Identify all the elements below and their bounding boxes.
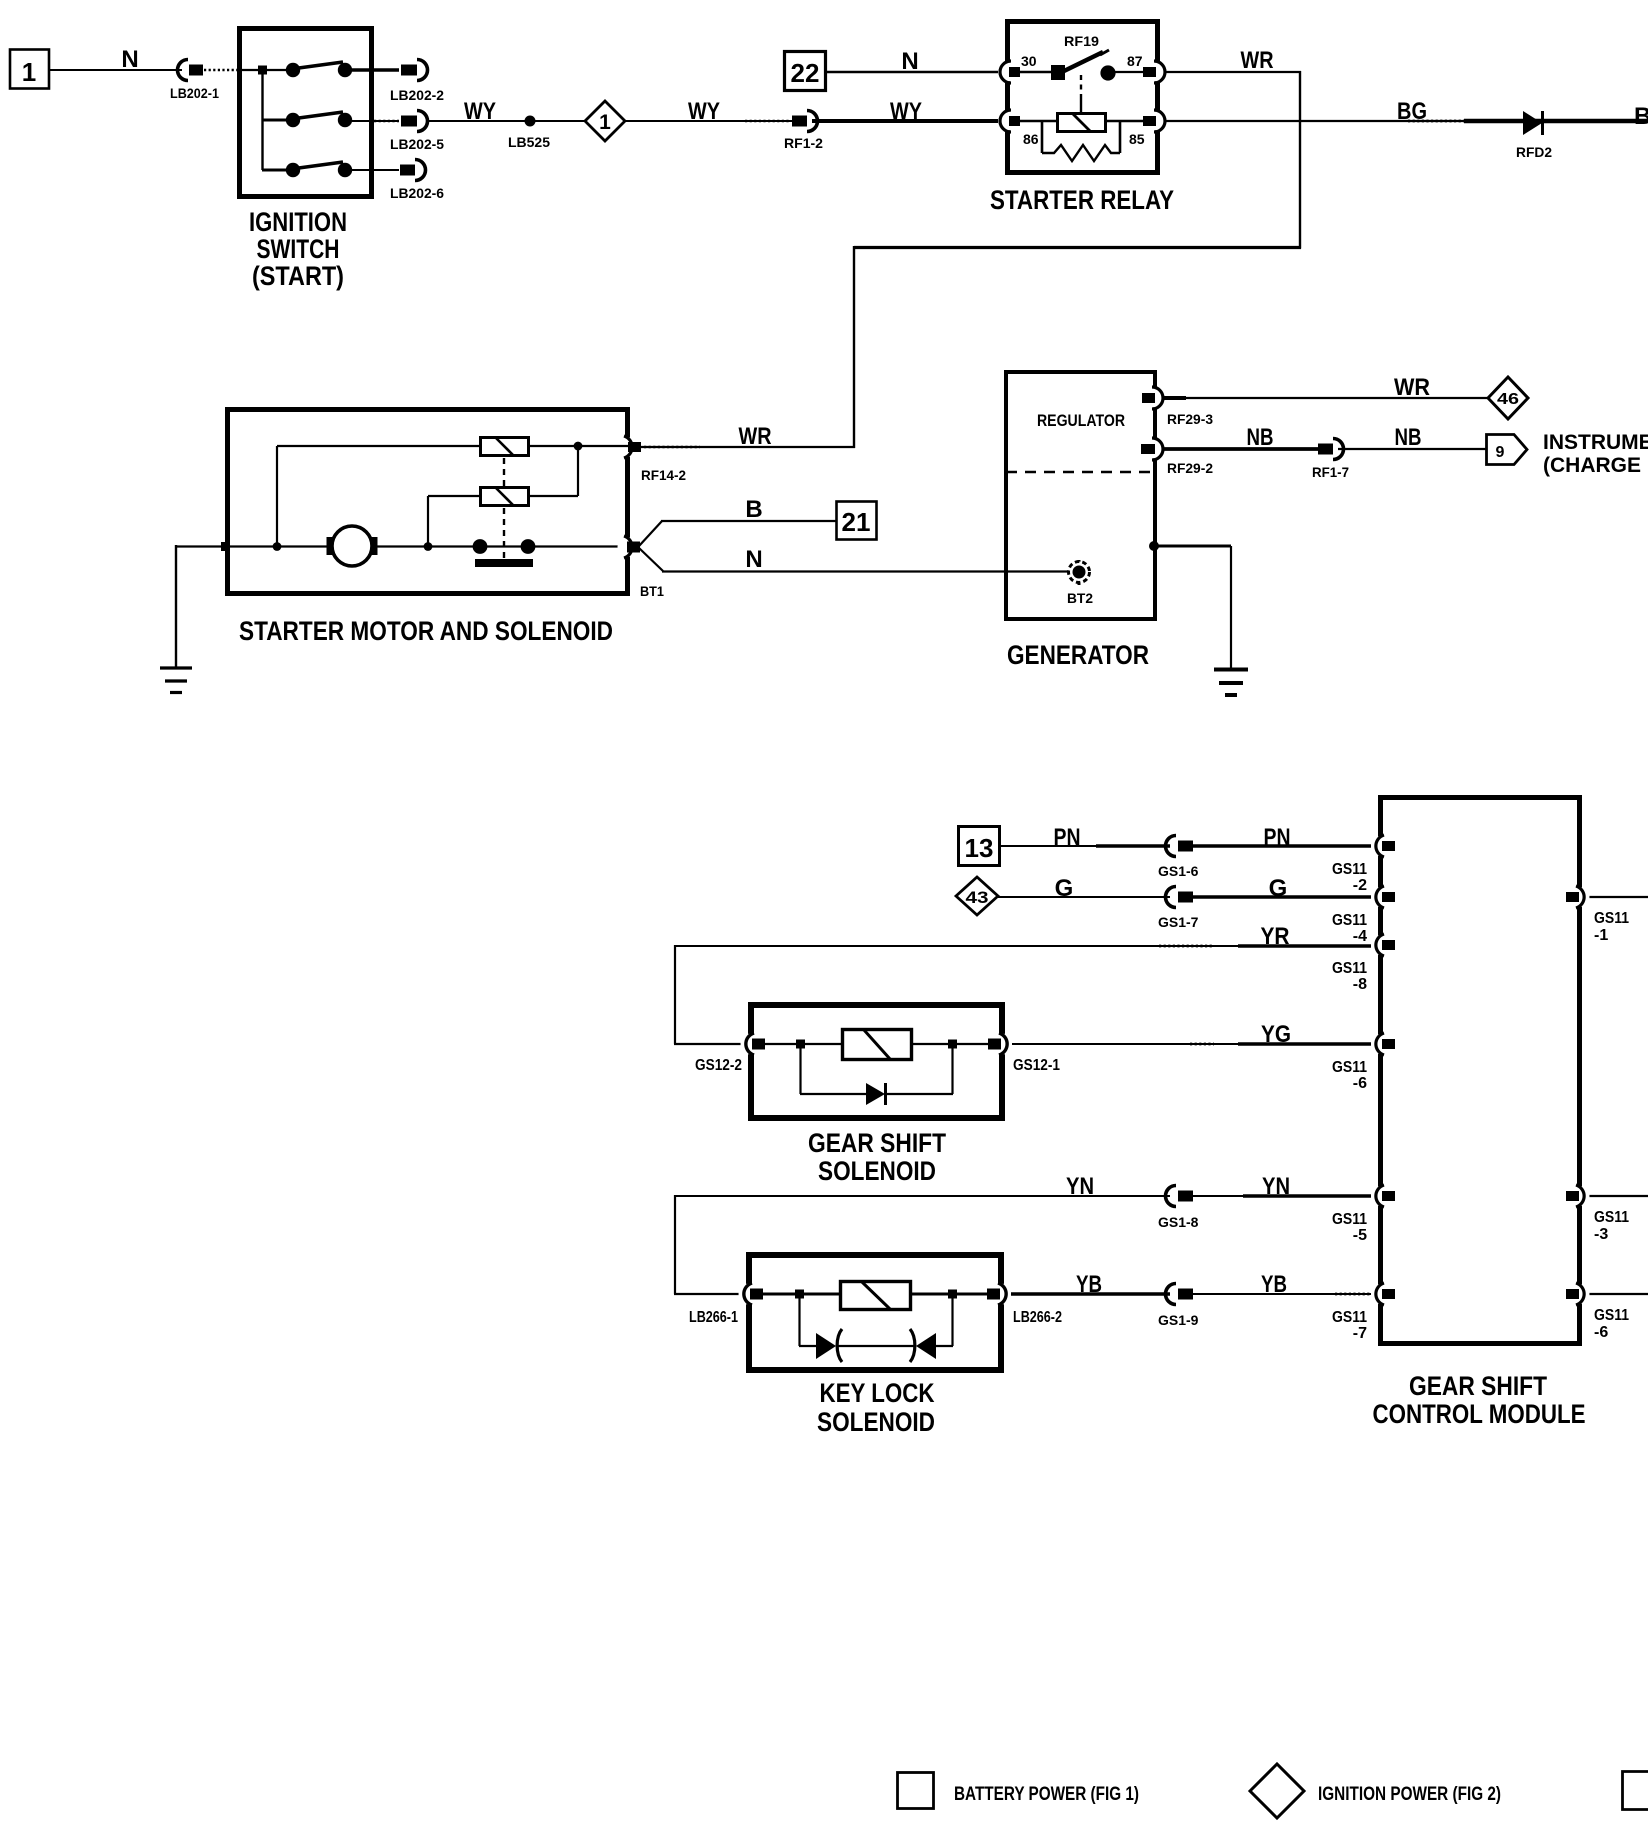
- wire BG thick through diode to edge: [1464, 119, 1648, 123]
- wire WY thick from RF1-2 to starter relay pin 86: [812, 119, 998, 123]
- relay pin 87: [1127, 53, 1167, 83]
- svg-text:NB: NB: [1247, 424, 1274, 451]
- node 21 (connector box 21): [837, 502, 877, 540]
- svg-text:WY: WY: [688, 98, 720, 125]
- svg-text:YB: YB: [1076, 1271, 1102, 1298]
- label KEY LOCK SOLENOID: [817, 1378, 935, 1437]
- svg-text:86: 86: [1023, 131, 1039, 147]
- wire G from diamond 43 to GS1-7: [998, 896, 1170, 898]
- junction left (gear solenoid): [796, 1040, 805, 1049]
- wire WR from relay pin 87 to corner: [1166, 71, 1301, 73]
- relay pin 30: [998, 53, 1037, 83]
- svg-text:GS12-1: GS12-1: [1013, 1057, 1060, 1074]
- svg-text:YG: YG: [1261, 1021, 1291, 1048]
- svg-text:N: N: [901, 48, 918, 75]
- wire WR from vertical into RF14-2: [641, 446, 855, 448]
- starter motor and solenoid box: [228, 410, 628, 594]
- svg-text:CONTROL MODULE: CONTROL MODULE: [1373, 1399, 1586, 1429]
- svg-text:GS11: GS11: [1594, 1209, 1629, 1226]
- module pin GS11-6: [1332, 1033, 1395, 1092]
- junction on generator right edge: [1149, 541, 1159, 551]
- module pin GS11-7: [1332, 1283, 1395, 1342]
- wire: coil 1 to RF14-2 with junction: [528, 442, 628, 451]
- svg-text:LB202-5: LB202-5: [390, 136, 444, 152]
- wire N from box 22 to starter relay pin 30: [826, 71, 998, 73]
- svg-text:BATTERY POWER (FIG 1): BATTERY POWER (FIG 1): [954, 1784, 1139, 1805]
- svg-text:22: 22: [791, 58, 820, 88]
- wire NB from RF1-7 to node 9: [1338, 448, 1487, 450]
- switch contact row 2: [286, 112, 399, 127]
- svg-text:IGNITION POWER (FIG 2): IGNITION POWER (FIG 2): [1318, 1784, 1501, 1805]
- svg-text:GS11: GS11: [1332, 1309, 1367, 1326]
- svg-text:-8: -8: [1353, 976, 1367, 993]
- svg-text:GS11: GS11: [1594, 1307, 1629, 1324]
- zener diode right (key lock): [910, 1329, 936, 1362]
- wire WR from RF29-3 to diamond 46: [1163, 396, 1489, 400]
- connector GS1-9: [1158, 1284, 1199, 1329]
- svg-text:PN: PN: [1054, 824, 1081, 851]
- svg-text:RF14-2: RF14-2: [641, 467, 686, 483]
- svg-text:STARTER RELAY: STARTER RELAY: [990, 185, 1174, 215]
- svg-text:N: N: [745, 546, 762, 573]
- relay pin 86: [998, 110, 1039, 147]
- wire: pin 86 to relay coil: [1020, 120, 1057, 123]
- wire WY from LB525 to ignition power diamond: [535, 120, 586, 122]
- wire WR vertical down: [1299, 71, 1301, 249]
- connector LB202-5: [390, 111, 444, 153]
- wire: relay coil to pin 85: [1106, 120, 1144, 123]
- wire PN from box 13 to GS1-6: [1000, 845, 1170, 847]
- svg-text:BG: BG: [1397, 98, 1427, 125]
- wire: switch row 1 feed: [242, 69, 294, 71]
- svg-text:GS11: GS11: [1332, 861, 1367, 878]
- connector RF1-2: [784, 111, 823, 152]
- svg-text:YR: YR: [1261, 923, 1290, 950]
- gear shift solenoid box: [751, 1005, 1002, 1118]
- svg-text:YN: YN: [1262, 1173, 1290, 1200]
- svg-text:43: 43: [966, 888, 989, 907]
- svg-text:46: 46: [1497, 391, 1519, 408]
- svg-text:WR: WR: [739, 423, 772, 450]
- starter relay box: [1008, 22, 1158, 173]
- label GEAR SHIFT CONTROL MODULE: [1373, 1371, 1586, 1429]
- ground (generator): [1214, 670, 1248, 696]
- switch contact row 1: [286, 62, 399, 77]
- solenoid pin LB266-1: [689, 1283, 763, 1326]
- svg-text:YN: YN: [1066, 1173, 1094, 1200]
- node 9 (pointer flag): [1487, 435, 1528, 465]
- svg-text:LB202-6: LB202-6: [390, 185, 444, 201]
- generator box: [1006, 372, 1155, 619]
- splice LB525: [508, 116, 550, 151]
- svg-text:85: 85: [1129, 131, 1145, 147]
- node 1 (battery power connector box): [10, 50, 49, 89]
- svg-text:-7: -7: [1353, 1325, 1367, 1342]
- connector LB202-6: [390, 160, 444, 202]
- svg-text:REGULATOR: REGULATOR: [1037, 411, 1125, 430]
- junction right (key lock): [948, 1290, 957, 1299]
- starter pin BT1: [618, 536, 665, 599]
- legend ignition power diamond: [1250, 1764, 1304, 1818]
- module pin GS11-1 with wire to edge: [1566, 886, 1648, 944]
- module pin GS11-5: [1332, 1185, 1395, 1244]
- wire YN from GS1-8 to module: [1193, 1195, 1371, 1197]
- wire: YN riser down to key lock solenoid: [674, 1195, 740, 1294]
- wire PN from GS1-6 to module: [1193, 844, 1371, 848]
- node 22 (connector box 22): [785, 52, 826, 91]
- connector RF1-7: [1312, 439, 1349, 481]
- svg-text:GS1-6: GS1-6: [1158, 863, 1199, 879]
- svg-text:LB266-2: LB266-2: [1013, 1309, 1062, 1326]
- junction left (key lock): [795, 1290, 804, 1299]
- main bus wire through starter box: [176, 545, 628, 547]
- label INSTRUMENT (CHARGE I...) clipped: [1543, 431, 1648, 477]
- flyback diode loop (gear solenoid): [800, 1044, 953, 1094]
- svg-text:N: N: [121, 46, 138, 73]
- zener diode pair loop (key lock): [799, 1294, 953, 1346]
- svg-text:G: G: [1269, 875, 1288, 902]
- svg-text:RF19: RF19: [1064, 33, 1099, 49]
- svg-text:-2: -2: [1353, 877, 1367, 894]
- wire NB from RF29-2 to RF1-7: [1163, 447, 1319, 451]
- svg-text:-4: -4: [1353, 928, 1367, 945]
- solenoid contact dots: [473, 539, 536, 554]
- key lock solenoid box: [749, 1255, 1001, 1370]
- svg-text:GS1-8: GS1-8: [1158, 1214, 1199, 1230]
- svg-text:GS11: GS11: [1332, 912, 1367, 929]
- svg-text:(START): (START): [252, 261, 344, 291]
- junction dot coil 2 leg: [424, 542, 433, 551]
- wire to starter ground: [175, 545, 177, 668]
- module pin GS11-8: [1332, 934, 1395, 993]
- wire: left drop to main bus: [276, 446, 278, 547]
- svg-text:(CHARGE I: (CHARGE I: [1543, 454, 1648, 477]
- svg-text:NB: NB: [1395, 424, 1422, 451]
- ground (starter): [160, 668, 192, 693]
- svg-text:GS1-9: GS1-9: [1158, 1312, 1199, 1328]
- label GEAR SHIFT SOLENOID: [808, 1128, 946, 1186]
- svg-text:GS11: GS11: [1332, 960, 1367, 977]
- svg-text:GS11: GS11: [1332, 1059, 1367, 1076]
- svg-text:LB525: LB525: [508, 134, 550, 150]
- svg-text:B: B: [1634, 103, 1648, 130]
- gear shift solenoid coil: [843, 1030, 912, 1060]
- wire N from node 1 to LB202-1: [49, 69, 182, 71]
- svg-text:RF1-7: RF1-7: [1312, 464, 1349, 480]
- wire: junction down to coil 2: [528, 446, 578, 496]
- node 43 (ignition power diamond): [956, 877, 998, 915]
- connector LB202-2: [390, 60, 444, 104]
- svg-text:GS1-7: GS1-7: [1158, 914, 1199, 930]
- connector GS1-6: [1158, 836, 1199, 880]
- module pin GS11-6 right with wire to edge: [1566, 1283, 1648, 1341]
- svg-text:GS11: GS11: [1594, 910, 1629, 927]
- solenoid plunger dashed link: [503, 458, 505, 558]
- zener diode left (key lock): [816, 1329, 842, 1362]
- legend battery power symbol: [898, 1773, 934, 1809]
- svg-text:GS12-2: GS12-2: [695, 1057, 742, 1074]
- module pin GS11-4: [1332, 886, 1395, 945]
- wire YB from GS1-9 to module: [1193, 1293, 1371, 1295]
- solenoid coil 2: [481, 488, 529, 506]
- wire from generator to ground: [1154, 546, 1231, 669]
- wire: switch bus vertical: [261, 70, 263, 170]
- wire YN from left riser to GS1-8: [675, 1195, 1170, 1197]
- generator pin RF29-2: [1141, 438, 1213, 476]
- svg-text:1: 1: [599, 111, 611, 134]
- wire: coil to GS12-1: [911, 1043, 989, 1045]
- svg-text:-5: -5: [1353, 1227, 1367, 1244]
- svg-text:GENERATOR: GENERATOR: [1007, 640, 1149, 670]
- relay shunt resistor: [1042, 122, 1120, 161]
- svg-text:SOLENOID: SOLENOID: [818, 1156, 936, 1186]
- svg-text:WR: WR: [1241, 47, 1274, 74]
- svg-text:G: G: [1055, 875, 1074, 902]
- ignition switch box: [240, 29, 372, 197]
- solenoid pin GS12-2: [695, 1033, 765, 1074]
- svg-text:LB202-2: LB202-2: [390, 87, 444, 103]
- diode (gear solenoid): [866, 1083, 886, 1105]
- junction at box edge: [221, 542, 230, 551]
- gear shift control module box: [1381, 798, 1580, 1344]
- svg-text:GEAR SHIFT: GEAR SHIFT: [808, 1128, 946, 1158]
- svg-text:WR: WR: [1394, 374, 1430, 401]
- wire YG from GS12-1 to module: [1012, 1043, 1371, 1045]
- label IGNITION SWITCH (START): [249, 207, 347, 291]
- wire G from GS1-7 to module: [1193, 895, 1371, 899]
- module pin GS11-3 with wire to edge: [1566, 1185, 1648, 1243]
- wire YR from left riser to module: [675, 945, 1371, 947]
- wire: LB266-1 to coil: [763, 1293, 841, 1296]
- key lock solenoid coil: [841, 1282, 911, 1310]
- svg-text:-1: -1: [1594, 927, 1608, 944]
- svg-text:BT2: BT2: [1067, 590, 1093, 606]
- svg-text:LB202-1: LB202-1: [170, 85, 219, 101]
- connector GS1-8: [1158, 1186, 1199, 1231]
- svg-text:GEAR SHIFT: GEAR SHIFT: [1409, 1371, 1547, 1401]
- node 1 (ignition power diamond): [585, 101, 625, 141]
- svg-text:RFD2: RFD2: [1516, 144, 1552, 160]
- node: switch bus junction: [258, 66, 267, 75]
- generator terminal BT2: [1067, 560, 1093, 606]
- wire: GS12-2 to coil: [765, 1043, 843, 1045]
- solenoid coil 1: [481, 438, 529, 456]
- svg-text:1: 1: [22, 57, 36, 87]
- wire N branch down to generator BT2: [639, 548, 1070, 572]
- generator pin RF29-3: [1142, 387, 1213, 427]
- node 13 (connector box 13): [959, 827, 1000, 866]
- relay armature dashed link: [1080, 75, 1082, 113]
- svg-text:-3: -3: [1594, 1226, 1608, 1243]
- svg-text:WY: WY: [890, 98, 922, 125]
- wire: coil to LB266-2: [910, 1293, 988, 1296]
- motor M with brush terminals: [327, 526, 378, 566]
- solenoid pin LB266-2: [987, 1283, 1062, 1326]
- solenoid pin GS12-1: [988, 1033, 1060, 1074]
- svg-text:INSTRUME: INSTRUME: [1543, 431, 1648, 454]
- node 46 (diamond): [1488, 377, 1528, 419]
- svg-text:21: 21: [842, 507, 871, 537]
- connector LB202-1: [170, 60, 237, 102]
- svg-text:IGNITION: IGNITION: [249, 207, 347, 237]
- junction dot left drop: [273, 542, 282, 551]
- wire WY from LB202-5 to splice LB525: [429, 120, 526, 122]
- wire WY from diamond to RF1-2: [625, 120, 793, 122]
- wire: solenoid coil 1 to left drop: [277, 445, 481, 447]
- svg-text:B: B: [745, 496, 762, 523]
- svg-text:BT1: BT1: [640, 583, 664, 599]
- wire: switch bus to row 2: [262, 119, 294, 122]
- svg-text:RF1-2: RF1-2: [784, 135, 823, 151]
- wire WR horizontal across: [854, 246, 1301, 249]
- svg-text:9: 9: [1496, 444, 1505, 461]
- junction right (gear solenoid): [948, 1040, 957, 1049]
- svg-text:SWITCH: SWITCH: [257, 234, 340, 264]
- module pin GS11-2: [1332, 835, 1395, 894]
- wire: switch bus to row 3: [262, 169, 294, 172]
- legend partial symbol at right edge: [1623, 1772, 1648, 1810]
- solenoid contact bar: [475, 559, 533, 567]
- relay coil RF19: [1058, 114, 1106, 132]
- wire WR vertical down to starter: [853, 246, 855, 448]
- svg-text:-6: -6: [1594, 1324, 1608, 1341]
- svg-text:30: 30: [1021, 53, 1037, 69]
- starter pin RF14-2: [618, 436, 687, 483]
- svg-text:RF29-2: RF29-2: [1167, 460, 1213, 476]
- diode RFD2: [1516, 111, 1552, 160]
- svg-text:-6: -6: [1353, 1075, 1367, 1092]
- connector GS1-7: [1158, 887, 1199, 931]
- svg-text:YB: YB: [1261, 1271, 1287, 1298]
- wire B branch up to node 21: [639, 521, 836, 546]
- svg-text:KEY LOCK: KEY LOCK: [820, 1378, 935, 1408]
- svg-text:WY: WY: [464, 98, 496, 125]
- wire: YR riser down to gear shift solenoid: [674, 945, 742, 1044]
- svg-text:GS11: GS11: [1332, 1211, 1367, 1228]
- regulator dashed divider: [1006, 471, 1155, 473]
- svg-text:STARTER MOTOR AND SOLENOID: STARTER MOTOR AND SOLENOID: [239, 616, 613, 646]
- svg-text:SOLENOID: SOLENOID: [817, 1407, 935, 1437]
- wire YB from LB266-2 to GS1-9: [1011, 1292, 1170, 1296]
- switch contact row 3: [286, 162, 399, 177]
- svg-text:13: 13: [965, 833, 994, 863]
- wire BG from relay pin 85 to diode: [1166, 120, 1466, 122]
- relay pin 85: [1129, 110, 1167, 147]
- wire: coil 2 left leg to main bus: [428, 496, 481, 547]
- relay switch: fixed contact, blade, moving contact: [1020, 50, 1144, 81]
- svg-text:LB266-1: LB266-1: [689, 1309, 738, 1326]
- svg-text:PN: PN: [1264, 824, 1291, 851]
- svg-text:RF29-3: RF29-3: [1167, 411, 1213, 427]
- svg-text:87: 87: [1127, 53, 1143, 69]
